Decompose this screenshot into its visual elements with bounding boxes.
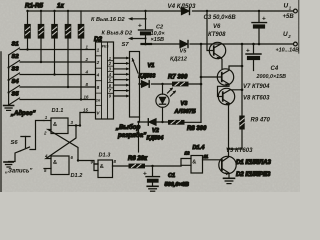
wire V4 junction to V6 base	[207, 11, 213, 51]
svg-text:&: &	[53, 160, 57, 166]
resistor R8 390	[168, 120, 185, 125]
wire vertical x201	[200, 44, 202, 122]
LED V3 AL307B	[156, 94, 169, 107]
svg-text:1: 1	[97, 47, 100, 52]
svg-text:+: +	[246, 48, 250, 55]
svg-text:2: 2	[85, 57, 89, 62]
node vertical x201 top	[200, 43, 203, 46]
svg-text:V3: V3	[181, 101, 189, 107]
svg-text:&: &	[192, 159, 196, 165]
svg-text:D1 К155ЛА3: D1 К155ЛА3	[236, 160, 271, 166]
wire V1 row	[140, 83, 202, 85]
svg-text:V1: V1	[148, 63, 155, 69]
svg-text:КТ908: КТ908	[208, 32, 226, 38]
frame right border	[298, 0, 300, 53]
node rail-R1	[26, 10, 28, 12]
wire address row 2	[20, 61, 96, 63]
svg-text:КД504: КД504	[147, 135, 165, 141]
svg-text:16: 16	[96, 97, 101, 102]
transistor V7 KT904	[217, 69, 233, 85]
ground S6	[4, 161, 13, 163]
svg-text:С2: С2	[156, 25, 164, 31]
capacitor C1	[151, 165, 153, 167]
svg-text:+10...14В: +10...14В	[276, 47, 300, 53]
node rail-R4	[67, 10, 69, 12]
svg-text:С1: С1	[168, 173, 175, 179]
ground V9 emitter	[224, 177, 235, 179]
svg-text:К Выв.16 D2: К Выв.16 D2	[91, 17, 126, 23]
wire stub to pin8 D2	[131, 38, 146, 40]
svg-text:12: 12	[185, 151, 190, 156]
gate D1.2	[51, 156, 69, 175]
svg-text:разряда”: разряда”	[117, 132, 147, 139]
wire D2 pin V row	[80, 112, 96, 114]
wire +5V top rail	[28, 10, 294, 12]
wire stub to pin16 D2	[131, 18, 146, 20]
svg-text:2: 2	[96, 60, 100, 65]
svg-text:D1.1: D1.1	[52, 108, 64, 114]
svg-text:16: 16	[84, 95, 89, 100]
svg-text:„Адрес”: „Адрес”	[10, 111, 35, 117]
svg-text:2000,0×15В: 2000,0×15В	[256, 74, 287, 80]
svg-text:U: U	[284, 3, 289, 10]
svg-text:2: 2	[43, 131, 47, 136]
wire address row 5	[20, 99, 96, 101]
resistor R4	[67, 11, 69, 87]
svg-text:V5: V5	[180, 49, 188, 55]
svg-text:S5: S5	[12, 92, 20, 98]
transistor V8 KT603	[218, 88, 234, 104]
ground C1	[147, 185, 158, 187]
svg-text:11: 11	[204, 154, 209, 159]
svg-text:S1: S1	[12, 42, 19, 48]
svg-text:&: &	[53, 122, 57, 128]
node rail-V6base	[206, 10, 208, 12]
svg-text:&: &	[100, 164, 104, 170]
capacitor C2	[145, 11, 147, 44]
node rail-R2	[40, 10, 42, 12]
node C2 to U2 wire	[144, 43, 147, 46]
svg-text:S7: S7	[122, 42, 130, 48]
diode V2 KD504	[149, 119, 156, 125]
svg-text:АЛ307Б: АЛ307Б	[174, 109, 196, 115]
svg-text:S2: S2	[12, 54, 20, 60]
node rail-C2	[144, 10, 146, 12]
svg-text:×15В: ×15В	[151, 37, 165, 43]
svg-text:V2: V2	[152, 128, 160, 134]
svg-text:„Запись”: „Запись”	[4, 169, 32, 175]
svg-text:500,0×6В: 500,0×6В	[165, 182, 189, 188]
resistor R3	[54, 11, 56, 75]
svg-text:+5В: +5В	[283, 14, 295, 20]
resistor R9 470	[239, 116, 244, 130]
wire D1.3 out	[113, 165, 182, 167]
svg-text:V7 КТ904: V7 КТ904	[243, 84, 270, 90]
svg-text:„Выбор: „Выбор	[115, 124, 140, 131]
svg-text:+: +	[143, 171, 147, 178]
wire D1.2 out to D1.3	[78, 161, 98, 165]
wire cross coupling B	[48, 130, 78, 161]
svg-text:8: 8	[97, 85, 100, 90]
node rail-R3	[53, 10, 55, 12]
svg-text:С4: С4	[271, 66, 279, 72]
resistor R1	[27, 11, 29, 50]
svg-text:КД212: КД212	[170, 57, 188, 63]
svg-text:R9 470: R9 470	[251, 118, 271, 124]
svg-text:КД503: КД503	[139, 73, 157, 79]
svg-text:R6 20к: R6 20к	[128, 156, 148, 162]
svg-text:К Выв.8 D2: К Выв.8 D2	[102, 31, 133, 37]
wire address row 4	[20, 86, 96, 88]
wire D1.4 out to V9 base	[203, 159, 222, 161]
frame left border	[0, 52, 2, 192]
wire cross coupling A	[46, 126, 76, 159]
svg-text:V8 КТ603: V8 КТ603	[243, 96, 270, 102]
terminal U2	[294, 42, 298, 46]
wire address row 3	[20, 74, 96, 76]
wire address row 1	[20, 49, 96, 51]
wire to D1.4 inputs	[181, 159, 191, 167]
resistor R5	[80, 11, 82, 100]
svg-text:S6: S6	[11, 140, 19, 146]
wire digit-select bottom row	[140, 121, 202, 123]
svg-text:V6: V6	[213, 24, 221, 30]
terminal U1	[294, 9, 298, 13]
svg-text:V9 КТ603: V9 КТ603	[226, 148, 253, 154]
wire S7 to bottom row	[139, 117, 141, 122]
wire digit select to gate	[138, 122, 140, 152]
wire D2 outputs to S7	[114, 58, 129, 96]
svg-text:S3: S3	[12, 67, 20, 73]
svg-text:10,0×: 10,0×	[151, 31, 166, 37]
svg-text:U: U	[283, 31, 288, 38]
svg-text:D1.4: D1.4	[193, 145, 206, 151]
node rail-C3	[258, 10, 260, 12]
svg-text:4: 4	[44, 154, 48, 159]
svg-text:D2 К155РЕ3: D2 К155РЕ3	[236, 172, 271, 178]
resistor R2	[40, 11, 42, 62]
svg-text:+: +	[262, 16, 266, 23]
svg-text:4: 4	[85, 70, 89, 75]
wire FF to D2 pin15	[79, 113, 81, 126]
svg-text:1к: 1к	[57, 3, 64, 10]
svg-text:4: 4	[96, 72, 100, 77]
svg-text:15: 15	[83, 108, 88, 113]
capacitor C4	[253, 44, 255, 71]
ground address bus	[4, 105, 14, 107]
wire collector rail	[241, 44, 243, 116]
wire switch common bus	[8, 55, 10, 106]
svg-text:R8 390: R8 390	[187, 126, 207, 132]
svg-text:D1.2: D1.2	[71, 173, 84, 179]
wire U2 rail	[142, 43, 294, 45]
svg-text:R7 390: R7 390	[168, 75, 188, 81]
svg-text:+: +	[138, 23, 142, 30]
svg-text:R1-R5: R1-R5	[25, 3, 43, 10]
svg-text:С3 50,0×6В: С3 50,0×6В	[204, 15, 237, 21]
svg-text:D1.3: D1.3	[99, 153, 112, 159]
svg-text:S4: S4	[12, 79, 20, 85]
